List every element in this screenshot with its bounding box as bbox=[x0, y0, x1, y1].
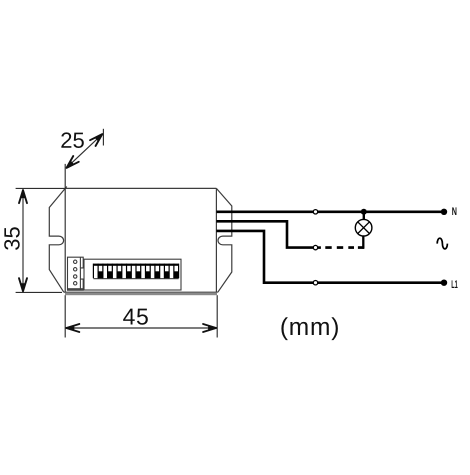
svg-text:N: N bbox=[452, 206, 457, 218]
svg-text:45: 45 bbox=[123, 304, 150, 330]
svg-text:35: 35 bbox=[0, 226, 24, 250]
svg-text:25: 25 bbox=[60, 128, 84, 153]
svg-text:(mm): (mm) bbox=[280, 314, 340, 341]
svg-text:L1: L1 bbox=[451, 279, 458, 291]
